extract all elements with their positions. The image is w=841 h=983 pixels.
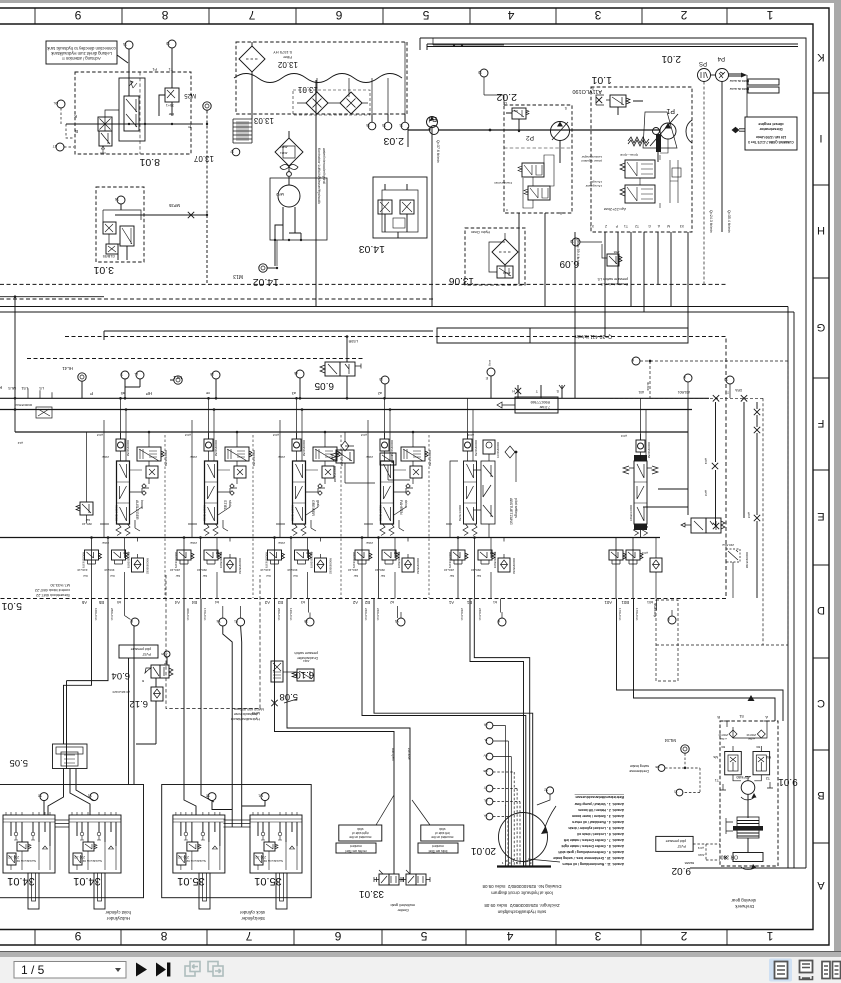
stick cylinder 35.01 right: [250, 812, 302, 909]
bottom band numbers: [74, 929, 773, 943]
valve block 3.01 dashed boundary: [93, 187, 144, 276]
nodes T5 T3 T1: [317, 42, 409, 130]
svg-text:1 / 5: 1 / 5: [21, 963, 45, 977]
pilot valve 6.04 with PVST: [112, 645, 174, 687]
engine spec label boxes: [730, 79, 779, 93]
filter 13.02: [239, 42, 298, 77]
diesel engine box: [745, 117, 797, 150]
last page button: [156, 963, 166, 977]
node T1 pilot circle: [123, 41, 133, 96]
note box: Achtung connection directly to hydraulic tank: [46, 41, 128, 64]
wire: A1/B1 to rotary bundle: [470, 599, 530, 867]
wire: bank long bus lines: [0, 398, 709, 537]
mid components around section 1: [336, 450, 354, 463]
wire: A4/B4 into stick cylinders: [184, 626, 265, 827]
slewing motor block dashed boundary 9.01: [717, 714, 798, 866]
return filter 13.06: [449, 228, 525, 286]
pump group 2.02 dashed boundary: [496, 91, 572, 213]
valve section 2 FAHREN drive: [348, 397, 432, 621]
pilot circles column: [483, 722, 520, 866]
node T2 pilot circle: [166, 40, 176, 88]
measuring point M25: [184, 92, 212, 284]
flow labels right: [576, 210, 731, 266]
title text block: [482, 884, 561, 915]
note boxes mounted on stick: [336, 795, 464, 853]
brake shuttle valve: [691, 518, 706, 533]
wire: pump outlet drops to bank: [433, 38, 688, 398]
manifold 13.07: [193, 77, 252, 163]
pointer arrow from list: [528, 859, 560, 862]
right band letters: [817, 51, 826, 891]
pilot valve inside 2.02: [503, 101, 529, 132]
control block 5.01 dashed boundary: [0, 337, 726, 613]
wire: top loop line: [420, 38, 806, 868]
label slewing gear: [731, 898, 756, 909]
gauge group 2.01: [661, 53, 747, 284]
wire: A5/B5 down to 5.05: [64, 599, 109, 745]
swing brake pilot: [629, 738, 700, 796]
valve 8.01 internals: [66, 67, 191, 153]
oil cooler wavy line: [234, 74, 402, 83]
wire: solid rect top of bank region: [104, 331, 433, 340]
viewer chrome: [0, 951, 841, 958]
main pump group 1.01 dashed boundary: [572, 74, 692, 232]
right part of bank: swing section piping: [331, 357, 788, 645]
single page view (active): [769, 959, 792, 982]
fan blades: [280, 165, 298, 177]
second dashed boundary: [0, 298, 435, 300]
page combo box: [14, 962, 126, 979]
valve section 1 ABSTUETZUNG: [444, 397, 558, 621]
valve section 01 swing: [604, 398, 662, 620]
left inlet components: [14, 386, 93, 526]
top band numbers (rotated 180): [74, 8, 773, 22]
stick cylinder 35.01 left: [173, 812, 225, 909]
hydraulic hose dashed boundary: [166, 575, 264, 721]
pump P2: [512, 106, 570, 141]
hoist cylinder 34.01 right: [69, 812, 121, 909]
hoist cylinder 34.01 left: [3, 812, 55, 909]
crossover relief valves: [713, 727, 771, 775]
slewing gearbox: [726, 817, 763, 870]
pump 2.03: [316, 80, 440, 306]
relief valve top right: [165, 88, 179, 102]
valve block 14.03: [359, 177, 427, 255]
pilot X valve left: [98, 117, 112, 131]
hoist cylinder group box: [0, 785, 144, 898]
wire: upper return bus pair: [0, 307, 794, 313]
wire: line from 3.01 to M25 dashed column: [115, 214, 207, 216]
wire: pilot lines to hoist cylinder group: [129, 626, 135, 785]
wire: A01/B01 lines to slewing motor: [617, 599, 784, 722]
relief with X top: [596, 95, 604, 105]
node T2 above 2.02: [478, 69, 504, 105]
node OL circle: [53, 100, 74, 138]
wire: 5.05 to hoist cylinders: [44, 744, 94, 815]
rotate icons (disabled): [185, 962, 200, 977]
unloading valve 6.05: [314, 335, 361, 399]
wire: main suction line Ed: [408, 115, 745, 135]
two page view: [822, 962, 841, 979]
check valves 13.01: [293, 85, 370, 115]
pilot pressure box 9.02: [656, 836, 727, 876]
rotary union circle 20.01: [471, 805, 560, 867]
wire: double supply top: [420, 38, 798, 50]
valve section 5 AUSLEGER boom: [77, 397, 168, 621]
wire: dashed pilot line down from M25: [206, 111, 208, 285]
dashed box around cooler group: [236, 42, 407, 114]
label hoist cylinder: [105, 910, 131, 921]
next page button: [136, 963, 147, 977]
fan motor 14.02: [233, 148, 327, 288]
LS regulator valves: [625, 160, 655, 178]
orifice 6.12: [112, 687, 163, 744]
wire: line exiting left at 297: [0, 297, 104, 386]
stick cylinder group box: [162, 785, 312, 898]
pressure switch 6.09: [559, 238, 628, 286]
wire: A3/B3 to grab lines: [275, 599, 411, 873]
regulator valves in 2.02: [493, 155, 562, 215]
tank bar: [656, 134, 661, 152]
wire: A4/B4 down to stick cylinders: [184, 599, 201, 789]
gear label OR 350: [721, 853, 763, 862]
wire: return bus verticals at right: [788, 307, 794, 869]
continuous view: [800, 961, 813, 980]
7.0 bar pilot box: [515, 397, 558, 413]
E / H / T / S labels: [485, 376, 559, 393]
label stick cylinder: [239, 910, 265, 921]
pump 1.01 internals: [581, 95, 692, 228]
small sampling valve dashed: [726, 549, 740, 562]
valve 3.01 internals: [103, 196, 208, 260]
node junction: [14, 295, 17, 298]
bank internal section dividers: [165, 435, 429, 598]
bundle lines through rotary: [506, 805, 512, 866]
pressure switch 6.10: [271, 651, 318, 682]
grab valves 33.01: [359, 748, 430, 912]
wire: A2/B2 to rotary bundle: [362, 599, 533, 867]
thermostat block 13.03: [253, 116, 303, 170]
slewing hydraulic motor: [715, 775, 773, 818]
swash spring: [628, 137, 649, 143]
Q=30-411 box: [437, 328, 688, 343]
main internal line: [66, 123, 191, 125]
valve section 3 GREIFER grab: [260, 397, 344, 621]
pilot port circles row: [62, 366, 389, 400]
test point 5.08 / MP9: [251, 691, 298, 716]
valve section 4 STIEL stick: [170, 397, 256, 621]
bank inlet port labels: [0, 339, 382, 396]
shuttle block 5.05: [10, 744, 88, 769]
pump circle P1: [660, 123, 676, 139]
node ST circle: [53, 143, 74, 151]
rotary connection list text: [553, 795, 624, 866]
wire: long dashed vehicle boundary: [0, 283, 726, 285]
valve block 8.01 dashed boundary: [75, 72, 191, 168]
circles under bank: [125, 599, 679, 682]
node T2 near rotary: [537, 787, 554, 805]
bottom port labels: [590, 224, 684, 228]
